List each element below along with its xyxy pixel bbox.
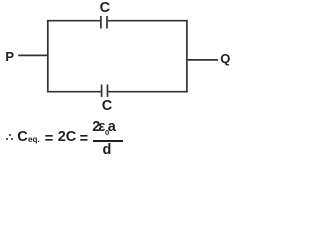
capacitor C2 value label C: [102, 99, 112, 114]
wire top-left segment: [47, 20, 100, 22]
formula 2C: [58, 130, 77, 145]
wire bottom-left segment: [47, 91, 101, 93]
therefore symbol: [9, 134, 11, 136]
capacitor C1 right plate: [106, 16, 108, 29]
formula numerator 2 epsilon0 a: [92, 120, 100, 135]
wire Q lead: [187, 59, 218, 61]
wire top-right segment: [108, 20, 188, 22]
formula equals 2: [80, 132, 88, 147]
capacitor C1 left plate: [100, 16, 102, 29]
formula fraction bar: [93, 140, 123, 141]
wire bottom-right segment: [108, 91, 187, 93]
capacitor C2 right plate: [107, 85, 109, 97]
node P label: [5, 50, 14, 63]
wire P lead: [18, 54, 48, 56]
node Q label: [220, 52, 230, 65]
formula C eq.: [17, 130, 27, 145]
wire right vertical: [186, 20, 188, 93]
wire left vertical: [47, 20, 49, 93]
capacitor C1 value label C: [100, 1, 110, 16]
formula equals 1: [45, 132, 53, 147]
stray faint speck: [3, 120, 5, 122]
capacitor C2 left plate: [101, 85, 103, 97]
formula denominator d: [103, 143, 112, 158]
